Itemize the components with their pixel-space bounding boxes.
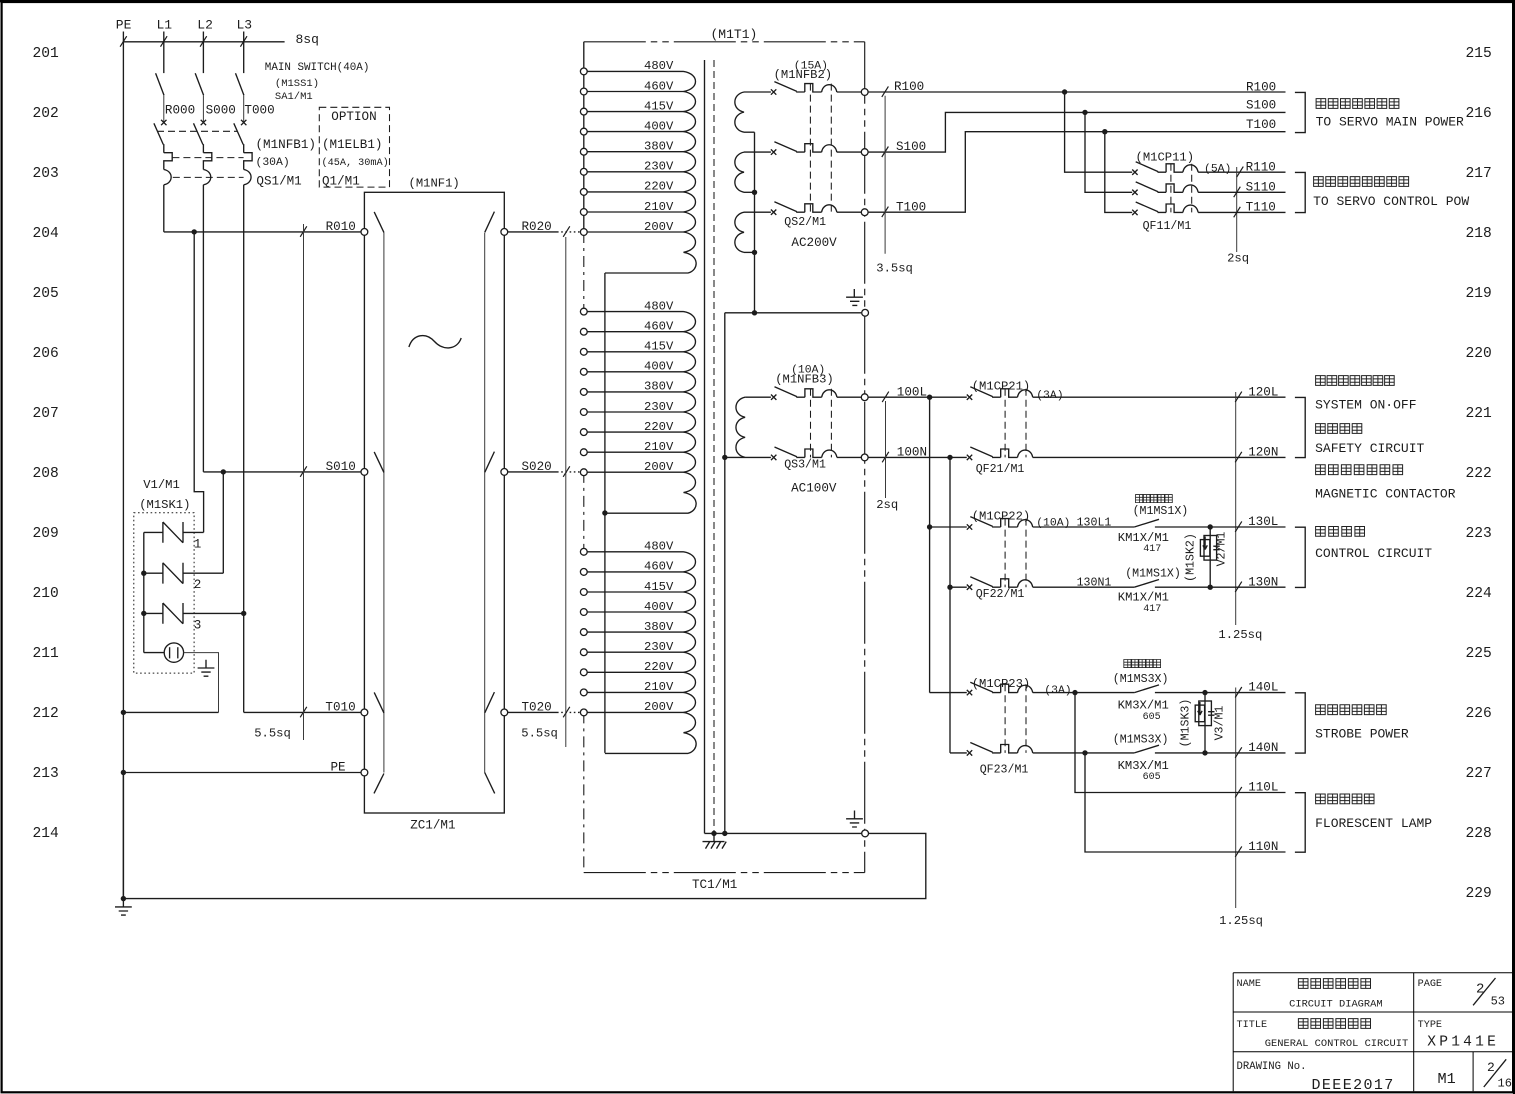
wire S010 row208 (203, 466, 361, 477)
contactor KM1X/M1 contact pole2 (1134, 580, 1285, 588)
gauge line 1.25sq strobe (1235, 687, 1242, 908)
svg-text:V2/M1: V2/M1 (1216, 532, 1229, 567)
node 100L label (897, 385, 927, 399)
svg-text:2sq: 2sq (876, 498, 898, 512)
svg-text:460V: 460V (644, 79, 674, 93)
node PE terminal label (331, 761, 346, 775)
sheet fraction 2/16 (1484, 1059, 1512, 1090)
label KM1X/M1 pole2 (1118, 590, 1169, 604)
label 5.5sq left (254, 727, 291, 741)
wire QF22 pole1 feed (930, 526, 967, 528)
svg-text:480V: 480V (644, 299, 674, 313)
svg-text:130L1: 130L1 (1077, 516, 1112, 529)
svg-text:120N: 120N (1248, 446, 1278, 460)
svg-text:QF21/M1: QF21/M1 (976, 463, 1025, 476)
circuit protector QF11/M1 pole 2 (1132, 182, 1285, 195)
svg-text:(10A): (10A) (1036, 518, 1070, 530)
gauge line 2sq servo control (1234, 167, 1244, 252)
svg-text:T000: T000 (244, 103, 274, 117)
circuit protector QF11/M1 pole 3 (1132, 202, 1285, 215)
svg-text:AC100V: AC100V (791, 481, 837, 495)
node S100 label (896, 140, 926, 154)
junction T line arrester 3 (241, 611, 246, 616)
svg-text:3: 3 (194, 618, 202, 632)
wire S100 to QF11 pole2 (1085, 112, 1132, 192)
svg-text:QS1/M1: QS1/M1 (256, 175, 301, 189)
svg-text:(5A): (5A) (1204, 164, 1231, 176)
node 110N label (1248, 840, 1278, 854)
transformer ground terminal (862, 309, 869, 316)
svg-text:230V: 230V (644, 640, 674, 654)
ground symbol transformer shield (846, 811, 863, 828)
svg-text:200V: 200V (644, 700, 674, 714)
gauge line 5.5sq right (565, 237, 567, 747)
label (45A, 30mA) (322, 157, 389, 169)
label NAME (1237, 979, 1261, 990)
arrester block dotted box (134, 513, 194, 673)
label 8sq (296, 32, 319, 47)
node R010 label (326, 220, 356, 234)
node 130N1 label (1077, 577, 1112, 590)
wire 100N (868, 452, 967, 463)
QF11 linkage dashes (1171, 164, 1192, 213)
arrester element 2 (144, 563, 224, 584)
label (M1MS1X) pole2 (1125, 567, 1181, 580)
wire R020 (508, 226, 581, 237)
svg-text:480V: 480V (644, 59, 674, 73)
svg-text:QS3/M1: QS3/M1 (784, 459, 826, 472)
breaker QS2/M1 pole 3 (771, 202, 861, 215)
junction arrester bus 2 (141, 571, 146, 576)
svg-text:216: 216 (1466, 106, 1492, 122)
svg-text:R010: R010 (326, 220, 356, 234)
svg-text:205: 205 (33, 286, 59, 302)
svg-text:417: 417 (1143, 544, 1161, 555)
node 120N label (1248, 446, 1278, 460)
transformer primary bank 1 taps (587, 71, 696, 273)
label (M1NFB3) (775, 372, 834, 386)
wire T100 (868, 132, 1285, 217)
svg-text:206: 206 (33, 346, 59, 362)
svg-text:S000: S000 (206, 103, 236, 117)
svg-text:PE: PE (116, 17, 132, 32)
svg-text:(M1CP11): (M1CP11) (1136, 151, 1195, 165)
label (10A) (791, 365, 825, 377)
label TO SERVO MAIN POWER (1316, 114, 1464, 129)
svg-text:DRAWING No.: DRAWING No. (1237, 1061, 1307, 1073)
pin 1 label (194, 537, 202, 551)
QF21 linkage dashes (1005, 389, 1026, 458)
svg-text:(M1MS3X): (M1MS3X) (1113, 673, 1169, 686)
page fraction 2/53 (1473, 978, 1505, 1009)
node 140L label (1248, 681, 1278, 695)
svg-text:400V: 400V (644, 360, 674, 374)
filter right blade S (485, 452, 495, 473)
secondary winding AC100V (725, 397, 771, 457)
main switch SA1/M1 pole L2 (195, 73, 203, 122)
label (M1MS3X) pole1 (1113, 673, 1169, 686)
bracket control circuit (1295, 527, 1305, 587)
svg-text:S100: S100 (1246, 99, 1276, 113)
svg-text:ZC1/M1: ZC1/M1 (410, 819, 455, 833)
varistor V3/M1 (1195, 690, 1214, 756)
label servo main power JP (1316, 99, 1399, 109)
row numbers 201-214 (33, 46, 60, 842)
label (10A) QF22 (1036, 518, 1070, 530)
label (M1NF1) (409, 177, 460, 191)
node S010 label (326, 460, 356, 474)
svg-text:226: 226 (1466, 706, 1492, 722)
svg-text:219: 219 (1466, 286, 1492, 302)
node 130L1 label (1077, 516, 1112, 529)
label (15A) (794, 60, 828, 72)
label (M1T1) (711, 27, 758, 42)
label TC1/M1 (692, 878, 737, 892)
label OPTION (331, 110, 376, 124)
svg-text:SAFETY CIRCUIT: SAFETY CIRCUIT (1315, 441, 1424, 456)
svg-text:460V: 460V (644, 320, 674, 334)
label V1/M1 (143, 478, 180, 492)
circuit protector QF23/M1 pole 2 (967, 743, 1135, 756)
label 1.25sq strobe (1219, 914, 1263, 928)
breaker QS1/M1 pole T (234, 120, 252, 713)
svg-text:DEEE2017: DEEE2017 (1312, 1077, 1395, 1094)
svg-text:(M1SK1): (M1SK1) (139, 498, 190, 512)
QF23 linkage dashes (1005, 684, 1026, 753)
filter left blade S (374, 452, 384, 473)
label 2sq AC100V (876, 498, 898, 512)
svg-text:T100: T100 (1246, 118, 1276, 132)
svg-text:(M1MS3X): (M1MS3X) (1113, 733, 1169, 746)
label AC100V (791, 481, 837, 495)
transformer primary bank 2 voltage labels (644, 299, 674, 474)
breaker QS1/M1 pole R (154, 120, 172, 232)
label QF21/M1 (976, 463, 1025, 476)
bracket strobe power (1295, 693, 1305, 753)
node R020 label (522, 220, 552, 234)
breaker QS2/M1 pole 1 (771, 82, 861, 95)
option breaker Q1/M1 box (319, 107, 389, 187)
label strobe power in JP small (1124, 659, 1161, 667)
varistor V2/M1 (1200, 524, 1219, 590)
wire PE row213 (123, 772, 361, 774)
svg-text:PE: PE (331, 761, 346, 775)
wire PE drop (122, 32, 124, 899)
svg-text:CONTROL CIRCUIT: CONTROL CIRCUIT (1315, 546, 1432, 561)
svg-text:QS2/M1: QS2/M1 (784, 216, 826, 229)
title JP (1298, 1019, 1370, 1029)
svg-text:R020: R020 (522, 220, 552, 234)
node S020 label (522, 460, 552, 474)
label (M1SS1) (275, 78, 319, 90)
transformer core earth link (705, 831, 869, 836)
svg-text:229: 229 (1466, 886, 1492, 902)
svg-text:415V: 415V (644, 99, 674, 113)
node 100N label (897, 446, 927, 460)
label (5A) (1204, 164, 1231, 176)
svg-text:(3A): (3A) (1036, 390, 1063, 402)
filter inner left bus (383, 232, 385, 772)
svg-text:(M1MS1X): (M1MS1X) (1125, 567, 1181, 580)
label 605 pole1 (1143, 712, 1161, 723)
label QS3/M1 (784, 459, 826, 472)
label (M1NFB1) (256, 138, 316, 152)
svg-text:L1: L1 (157, 17, 173, 32)
label QF23/M1 (980, 763, 1029, 776)
label (M1MS3X) pole2 (1113, 733, 1169, 746)
filter bottom-right blade (485, 773, 495, 794)
label magnetic contactor JP (1316, 465, 1403, 475)
label (M1SK3) vertical (1180, 699, 1193, 748)
breaker QS3/M1 pole 2 (771, 447, 861, 460)
row numbers 215-229 (1466, 46, 1493, 902)
svg-text:T020: T020 (522, 701, 552, 715)
wire R010 row204 (164, 226, 361, 237)
svg-text:228: 228 (1466, 826, 1492, 842)
svg-text:S110: S110 (1246, 180, 1276, 194)
wire QF23 pole2 feed (950, 752, 967, 754)
arrester element 1 (144, 522, 204, 543)
label PAGE (1418, 979, 1442, 990)
label (M1NFB2) (774, 68, 833, 82)
svg-text:(M1NFB2): (M1NFB2) (774, 68, 833, 82)
svg-text:110N: 110N (1248, 840, 1278, 854)
node 140N label (1248, 741, 1278, 755)
svg-text:211: 211 (33, 646, 60, 662)
svg-text:400V: 400V (644, 600, 674, 614)
label 3.5sq (876, 262, 913, 276)
svg-text:KM3X/M1: KM3X/M1 (1118, 699, 1169, 713)
svg-text:417: 417 (1143, 604, 1161, 615)
svg-text:(M1CP21): (M1CP21) (972, 380, 1031, 394)
wire R branch to arrester 1 (194, 232, 203, 533)
junction QF22 pole2 feed (947, 585, 952, 590)
svg-text:Q1/M1: Q1/M1 (322, 175, 360, 189)
label 605 pole2 (1143, 772, 1161, 783)
svg-text:L2: L2 (197, 17, 213, 32)
wire V1 ground to PE line (123, 711, 218, 713)
svg-text:MAGNETIC CONTACTOR: MAGNETIC CONTACTOR (1315, 487, 1456, 502)
svg-text:2: 2 (194, 578, 202, 592)
label M1 (1438, 1070, 1456, 1088)
junction PE row213 (121, 770, 126, 775)
circuit protector QF23/M1 pole 1 (967, 682, 1135, 695)
svg-text:T100: T100 (896, 200, 926, 214)
label (M1ELB1) (322, 138, 382, 152)
gauge line 3.5sq (884, 96, 886, 254)
wire 100N to QF21 pole2 (949, 457, 951, 753)
svg-text:1.25sq: 1.25sq (1219, 914, 1263, 928)
bracket servo main power (1295, 92, 1305, 132)
svg-text:(M1CP23): (M1CP23) (972, 677, 1031, 691)
node L2 label (197, 17, 213, 32)
wire arrester left bus (143, 532, 145, 652)
svg-text:QF11/M1: QF11/M1 (1143, 220, 1192, 233)
svg-text:(45A, 30mA): (45A, 30mA) (322, 157, 389, 169)
transformer primary bank 1 voltage labels (644, 59, 674, 234)
breaker QS3 linkage dashes (811, 389, 832, 458)
node T110 label (1246, 201, 1276, 215)
wire 110L (1075, 693, 1286, 793)
label FLORESCENT LAMP (1315, 816, 1432, 831)
svg-text:3.5sq: 3.5sq (876, 262, 913, 276)
circuit protector QF21/M1 pole 2 (967, 447, 1286, 460)
svg-text:OPTION: OPTION (331, 110, 376, 124)
junction T100 tap (1102, 129, 1107, 134)
node S100 output label (1246, 99, 1276, 113)
breaker QS3/M1 pole 1 (771, 387, 861, 400)
svg-text:212: 212 (33, 706, 59, 722)
node 110L label (1248, 781, 1278, 795)
junction S100 tap (1082, 110, 1087, 115)
label QF11/M1 (1143, 220, 1192, 233)
breaker QS2/M1 pole 2 (771, 142, 861, 155)
gauge line 2sq AC100V (885, 401, 887, 498)
circuit protector QF22/M1 pole 2 (967, 577, 1135, 590)
label GENERAL CONTROL CIRCUIT (1265, 1038, 1408, 1050)
svg-text:380V: 380V (644, 140, 674, 154)
svg-text:140N: 140N (1248, 741, 1278, 755)
svg-text:223: 223 (1466, 526, 1492, 542)
label 2sq servo control (1227, 251, 1249, 265)
svg-text:R000: R000 (165, 103, 195, 117)
label servo control power JP (1314, 177, 1409, 187)
circuit protector QF21/M1 pole 1 (967, 387, 1286, 400)
svg-text:L3: L3 (237, 17, 253, 32)
svg-text:140L: 140L (1248, 681, 1278, 695)
label (M1SK1) (139, 498, 190, 512)
svg-text:R110: R110 (1246, 160, 1276, 174)
svg-text:MAIN SWITCH(40A): MAIN SWITCH(40A) (265, 62, 370, 74)
contactor KM3X/M1 contact pole2 (1134, 745, 1285, 753)
svg-text:200V: 200V (644, 220, 674, 234)
svg-text:203: 203 (33, 166, 59, 182)
junction 140N to 110N (1082, 750, 1087, 755)
filter terminal R020 (501, 229, 508, 236)
svg-text:S100: S100 (896, 140, 926, 154)
junction R branch (192, 229, 197, 234)
wire L2 drop (202, 32, 204, 74)
label TYPE (1418, 1020, 1442, 1031)
svg-text:100L: 100L (897, 385, 927, 399)
svg-text:T110: T110 (1246, 201, 1276, 215)
wire T020 (508, 707, 581, 718)
wire AC200V neutral bus (752, 132, 757, 313)
svg-text:TC1/M1: TC1/M1 (692, 878, 737, 892)
svg-text:207: 207 (33, 406, 59, 422)
secondary winding AC200V 1 (735, 92, 771, 132)
label CIRCUIT DIAGRAM (1289, 998, 1383, 1010)
ground symbol V1 (198, 660, 215, 677)
ground symbol main earth (115, 899, 132, 916)
node T010 label (325, 700, 355, 714)
transformer shield terminal (862, 830, 869, 837)
svg-text:230V: 230V (644, 160, 674, 174)
transformer terminal 100N (861, 454, 868, 461)
svg-text:480V: 480V (644, 540, 674, 554)
gauge line 1.25sq control (1235, 392, 1242, 625)
svg-text:5.5sq: 5.5sq (521, 727, 558, 741)
label (M1CP23) (972, 677, 1031, 691)
svg-text:210: 210 (33, 586, 59, 602)
label QF22/M1 (976, 588, 1025, 601)
svg-text:KM1X/M1: KM1X/M1 (1118, 531, 1169, 545)
ground symbol AC200V neutral (846, 289, 863, 305)
svg-text:221: 221 (1466, 406, 1493, 422)
svg-text:V1/M1: V1/M1 (143, 478, 180, 492)
chassis ground symbol core (703, 833, 727, 848)
svg-text:(M1SS1): (M1SS1) (275, 78, 319, 90)
filter bottom-left blade (374, 774, 384, 794)
svg-text:130L: 130L (1248, 515, 1278, 529)
svg-text:S020: S020 (522, 460, 552, 474)
svg-text:S010: S010 (326, 460, 356, 474)
svg-text:220V: 220V (644, 180, 674, 194)
svg-text:TITLE: TITLE (1237, 1020, 1268, 1031)
node 120L label (1248, 386, 1278, 400)
node L3 label (237, 17, 253, 32)
label 417 pole1 (1143, 544, 1161, 555)
junction S branch (221, 469, 226, 474)
svg-text:GENERAL CONTROL CIRCUIT: GENERAL CONTROL CIRCUIT (1265, 1038, 1408, 1050)
svg-text:NAME: NAME (1237, 979, 1261, 990)
svg-text:(M1SK3): (M1SK3) (1180, 699, 1193, 748)
svg-text:400V: 400V (644, 119, 674, 133)
junction 100N (947, 455, 952, 460)
svg-text:SA1/M1: SA1/M1 (275, 91, 313, 103)
gauge line 5.5sq left (303, 224, 305, 740)
label safety circuit JP (1316, 424, 1362, 434)
label TO SERVO CONTROL POW (1313, 194, 1469, 209)
transformer primary bank 3 terminals (580, 548, 587, 715)
wire T010 row212 (244, 707, 361, 718)
svg-text:415V: 415V (644, 580, 674, 594)
wire primary common bus (604, 273, 606, 753)
svg-text:QF22/M1: QF22/M1 (976, 588, 1025, 601)
svg-text:XP141E: XP141E (1427, 1034, 1499, 1050)
contactor KM1X/M1 contact pole1 (1134, 519, 1285, 527)
bracket florescent lamp (1295, 793, 1305, 853)
pin 3 label (194, 618, 202, 632)
svg-text:220V: 220V (644, 420, 674, 434)
label (M1CP21) (972, 380, 1031, 394)
wire QF23 pole1 feed (930, 692, 967, 694)
svg-text:(M1T1): (M1T1) (711, 27, 758, 42)
contactor KM3X/M1 contact pole1 (1134, 685, 1285, 693)
label XP141E (1427, 1034, 1499, 1050)
svg-text:460V: 460V (644, 560, 674, 574)
filter right blade R (485, 212, 495, 233)
wire counter to ground drop (184, 653, 219, 713)
svg-text:(30A): (30A) (256, 157, 290, 169)
label (M1MS1X) pole1 (1133, 505, 1189, 518)
svg-text:1: 1 (194, 537, 202, 551)
svg-text:217: 217 (1466, 166, 1492, 182)
breaker QS2 linkage dashes (810, 84, 831, 213)
svg-text:FLORESCENT LAMP: FLORESCENT LAMP (1315, 816, 1432, 831)
filter terminal T010 (361, 709, 368, 716)
svg-text:1.25sq: 1.25sq (1218, 628, 1262, 642)
title block frame (1233, 973, 1513, 1091)
transformer terminal T100 (861, 209, 868, 216)
transformer primary bank 3 voltage labels (644, 540, 674, 715)
svg-text:209: 209 (33, 526, 59, 542)
svg-text:213: 213 (33, 766, 59, 782)
transformer terminal S100 (861, 149, 868, 156)
node T020 label (522, 701, 552, 715)
svg-text:TYPE: TYPE (1418, 1020, 1442, 1031)
label QS2/M1 (784, 216, 826, 229)
